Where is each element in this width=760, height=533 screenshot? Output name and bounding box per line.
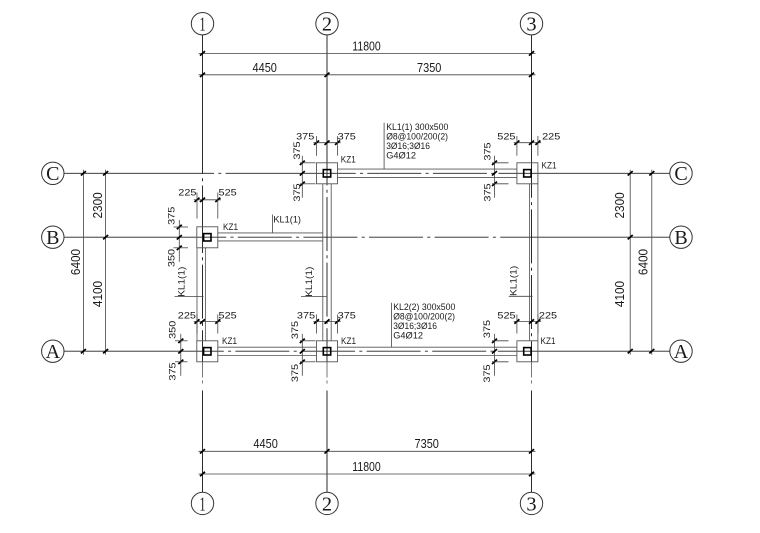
- svg-text:6400: 6400: [68, 249, 83, 275]
- svg-text:G4Ø12: G4Ø12: [386, 151, 416, 162]
- svg-text:11800: 11800: [352, 459, 380, 474]
- svg-text:KZ1: KZ1: [542, 160, 557, 171]
- svg-text:7350: 7350: [417, 60, 441, 75]
- svg-text:225: 225: [542, 131, 560, 142]
- svg-text:375: 375: [297, 310, 315, 321]
- svg-text:375: 375: [292, 183, 303, 201]
- svg-text:KZ1: KZ1: [541, 336, 556, 347]
- svg-text:C: C: [674, 163, 687, 185]
- svg-text:225: 225: [178, 310, 196, 321]
- svg-text:4100: 4100: [90, 281, 105, 307]
- svg-text:4100: 4100: [612, 281, 627, 307]
- svg-text:KZ1: KZ1: [341, 155, 356, 166]
- svg-text:1: 1: [200, 14, 206, 36]
- svg-text:2300: 2300: [90, 192, 105, 218]
- svg-text:375: 375: [338, 310, 356, 321]
- svg-text:350: 350: [167, 249, 178, 267]
- svg-text:4450: 4450: [253, 436, 277, 451]
- svg-text:11800: 11800: [352, 38, 380, 53]
- svg-text:7350: 7350: [415, 436, 439, 451]
- svg-text:375: 375: [290, 364, 301, 382]
- svg-text:B: B: [674, 227, 687, 249]
- svg-text:3: 3: [526, 14, 536, 36]
- svg-text:375: 375: [167, 207, 178, 225]
- svg-text:375: 375: [483, 142, 494, 160]
- svg-text:KL1(1): KL1(1): [509, 266, 520, 296]
- svg-text:C: C: [46, 163, 59, 185]
- svg-text:375: 375: [482, 364, 493, 382]
- svg-text:2: 2: [322, 493, 332, 515]
- svg-text:375: 375: [168, 362, 179, 380]
- svg-text:525: 525: [219, 310, 237, 321]
- svg-text:375: 375: [292, 141, 303, 159]
- svg-text:A: A: [46, 341, 61, 363]
- svg-text:2300: 2300: [612, 192, 627, 218]
- svg-text:525: 525: [497, 311, 515, 322]
- svg-text:375: 375: [483, 183, 494, 201]
- svg-text:KL1(1): KL1(1): [273, 215, 301, 226]
- svg-text:4450: 4450: [253, 60, 277, 75]
- svg-text:KL1(1): KL1(1): [177, 267, 188, 297]
- svg-text:525: 525: [219, 187, 237, 198]
- svg-text:375: 375: [290, 321, 301, 339]
- svg-text:375: 375: [338, 131, 356, 142]
- svg-text:G4Ø12: G4Ø12: [393, 330, 423, 341]
- svg-text:KL1(1): KL1(1): [304, 267, 315, 297]
- svg-text:3: 3: [526, 493, 536, 515]
- svg-text:225: 225: [539, 311, 557, 322]
- svg-text:A: A: [674, 341, 689, 363]
- svg-text:2: 2: [322, 14, 332, 36]
- svg-text:B: B: [46, 227, 59, 249]
- svg-text:KZ1: KZ1: [223, 222, 238, 233]
- svg-text:525: 525: [497, 131, 515, 142]
- svg-text:225: 225: [178, 187, 196, 198]
- svg-text:375: 375: [482, 320, 493, 338]
- svg-text:350: 350: [168, 321, 179, 339]
- svg-text:KZ1: KZ1: [341, 336, 356, 347]
- svg-text:KZ1: KZ1: [222, 336, 237, 347]
- svg-text:375: 375: [296, 131, 314, 142]
- svg-text:1: 1: [200, 493, 206, 515]
- svg-text:6400: 6400: [636, 249, 651, 275]
